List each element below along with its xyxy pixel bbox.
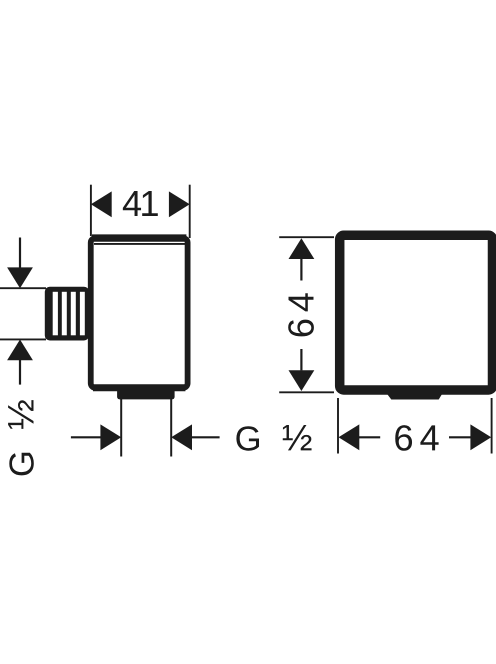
height dim lower tail: [300, 349, 302, 370]
dim 41 left extension line: [90, 185, 92, 236]
width dim right arrowhead: [470, 424, 491, 450]
outlet collar under body: [117, 387, 175, 399]
width dim digit 4: [420, 425, 438, 450]
height dim top extension line: [279, 236, 334, 238]
thread dia bottom extension line: [0, 338, 46, 340]
dim 41 digit 4: [123, 191, 141, 216]
thread dia letter G (rotated): [9, 453, 34, 476]
height dim upper arrowhead: [289, 238, 315, 259]
dim 41 right arrowhead: [169, 191, 190, 217]
width dim right tail: [449, 436, 471, 438]
height dim bottom extension line: [279, 391, 334, 393]
seam line below top edge: [94, 243, 187, 245]
outlet stem right line: [170, 399, 172, 457]
thread dia lower arrowhead: [7, 340, 33, 361]
side view body outline: [91, 238, 188, 388]
front view square plate: [340, 235, 493, 390]
height dim lower arrowhead: [289, 370, 315, 391]
thread dia upper arrow tail: [19, 238, 21, 268]
thread dia half glyph (rotated): [8, 400, 33, 429]
stem dim right tail: [192, 436, 220, 438]
thread dia top extension line: [0, 287, 46, 289]
stem dim left tail: [71, 436, 101, 438]
dim 41 right extension line: [189, 185, 191, 238]
body bottom face line: [93, 384, 185, 391]
width dim right extension line: [491, 398, 493, 454]
stem dim left arrowhead: [100, 424, 121, 450]
stem dim right arrowhead: [171, 424, 192, 450]
stem dim half glyph: [283, 425, 312, 450]
body top face line: [92, 234, 186, 241]
dim 41 left arrowhead: [91, 191, 112, 217]
dim 41 digit 1: [142, 191, 158, 216]
height dim upper tail: [300, 259, 302, 281]
threaded inlet block: [45, 287, 89, 341]
thread dia lower arrow tail: [19, 360, 21, 385]
stem dim letter G: [236, 426, 259, 451]
thread groove slots: [53, 292, 85, 336]
width dim left arrowhead: [339, 424, 360, 450]
height dim digit 4 (rotated): [289, 293, 314, 311]
width dim left tail: [359, 436, 380, 438]
height dim digit 6 (rotated): [288, 320, 314, 337]
width dim digit 6: [395, 425, 412, 451]
width dim left extension line: [337, 398, 339, 454]
outlet tab under plate: [381, 386, 447, 400]
thread dia upper arrowhead: [7, 267, 33, 288]
outlet stem left line: [120, 399, 122, 457]
